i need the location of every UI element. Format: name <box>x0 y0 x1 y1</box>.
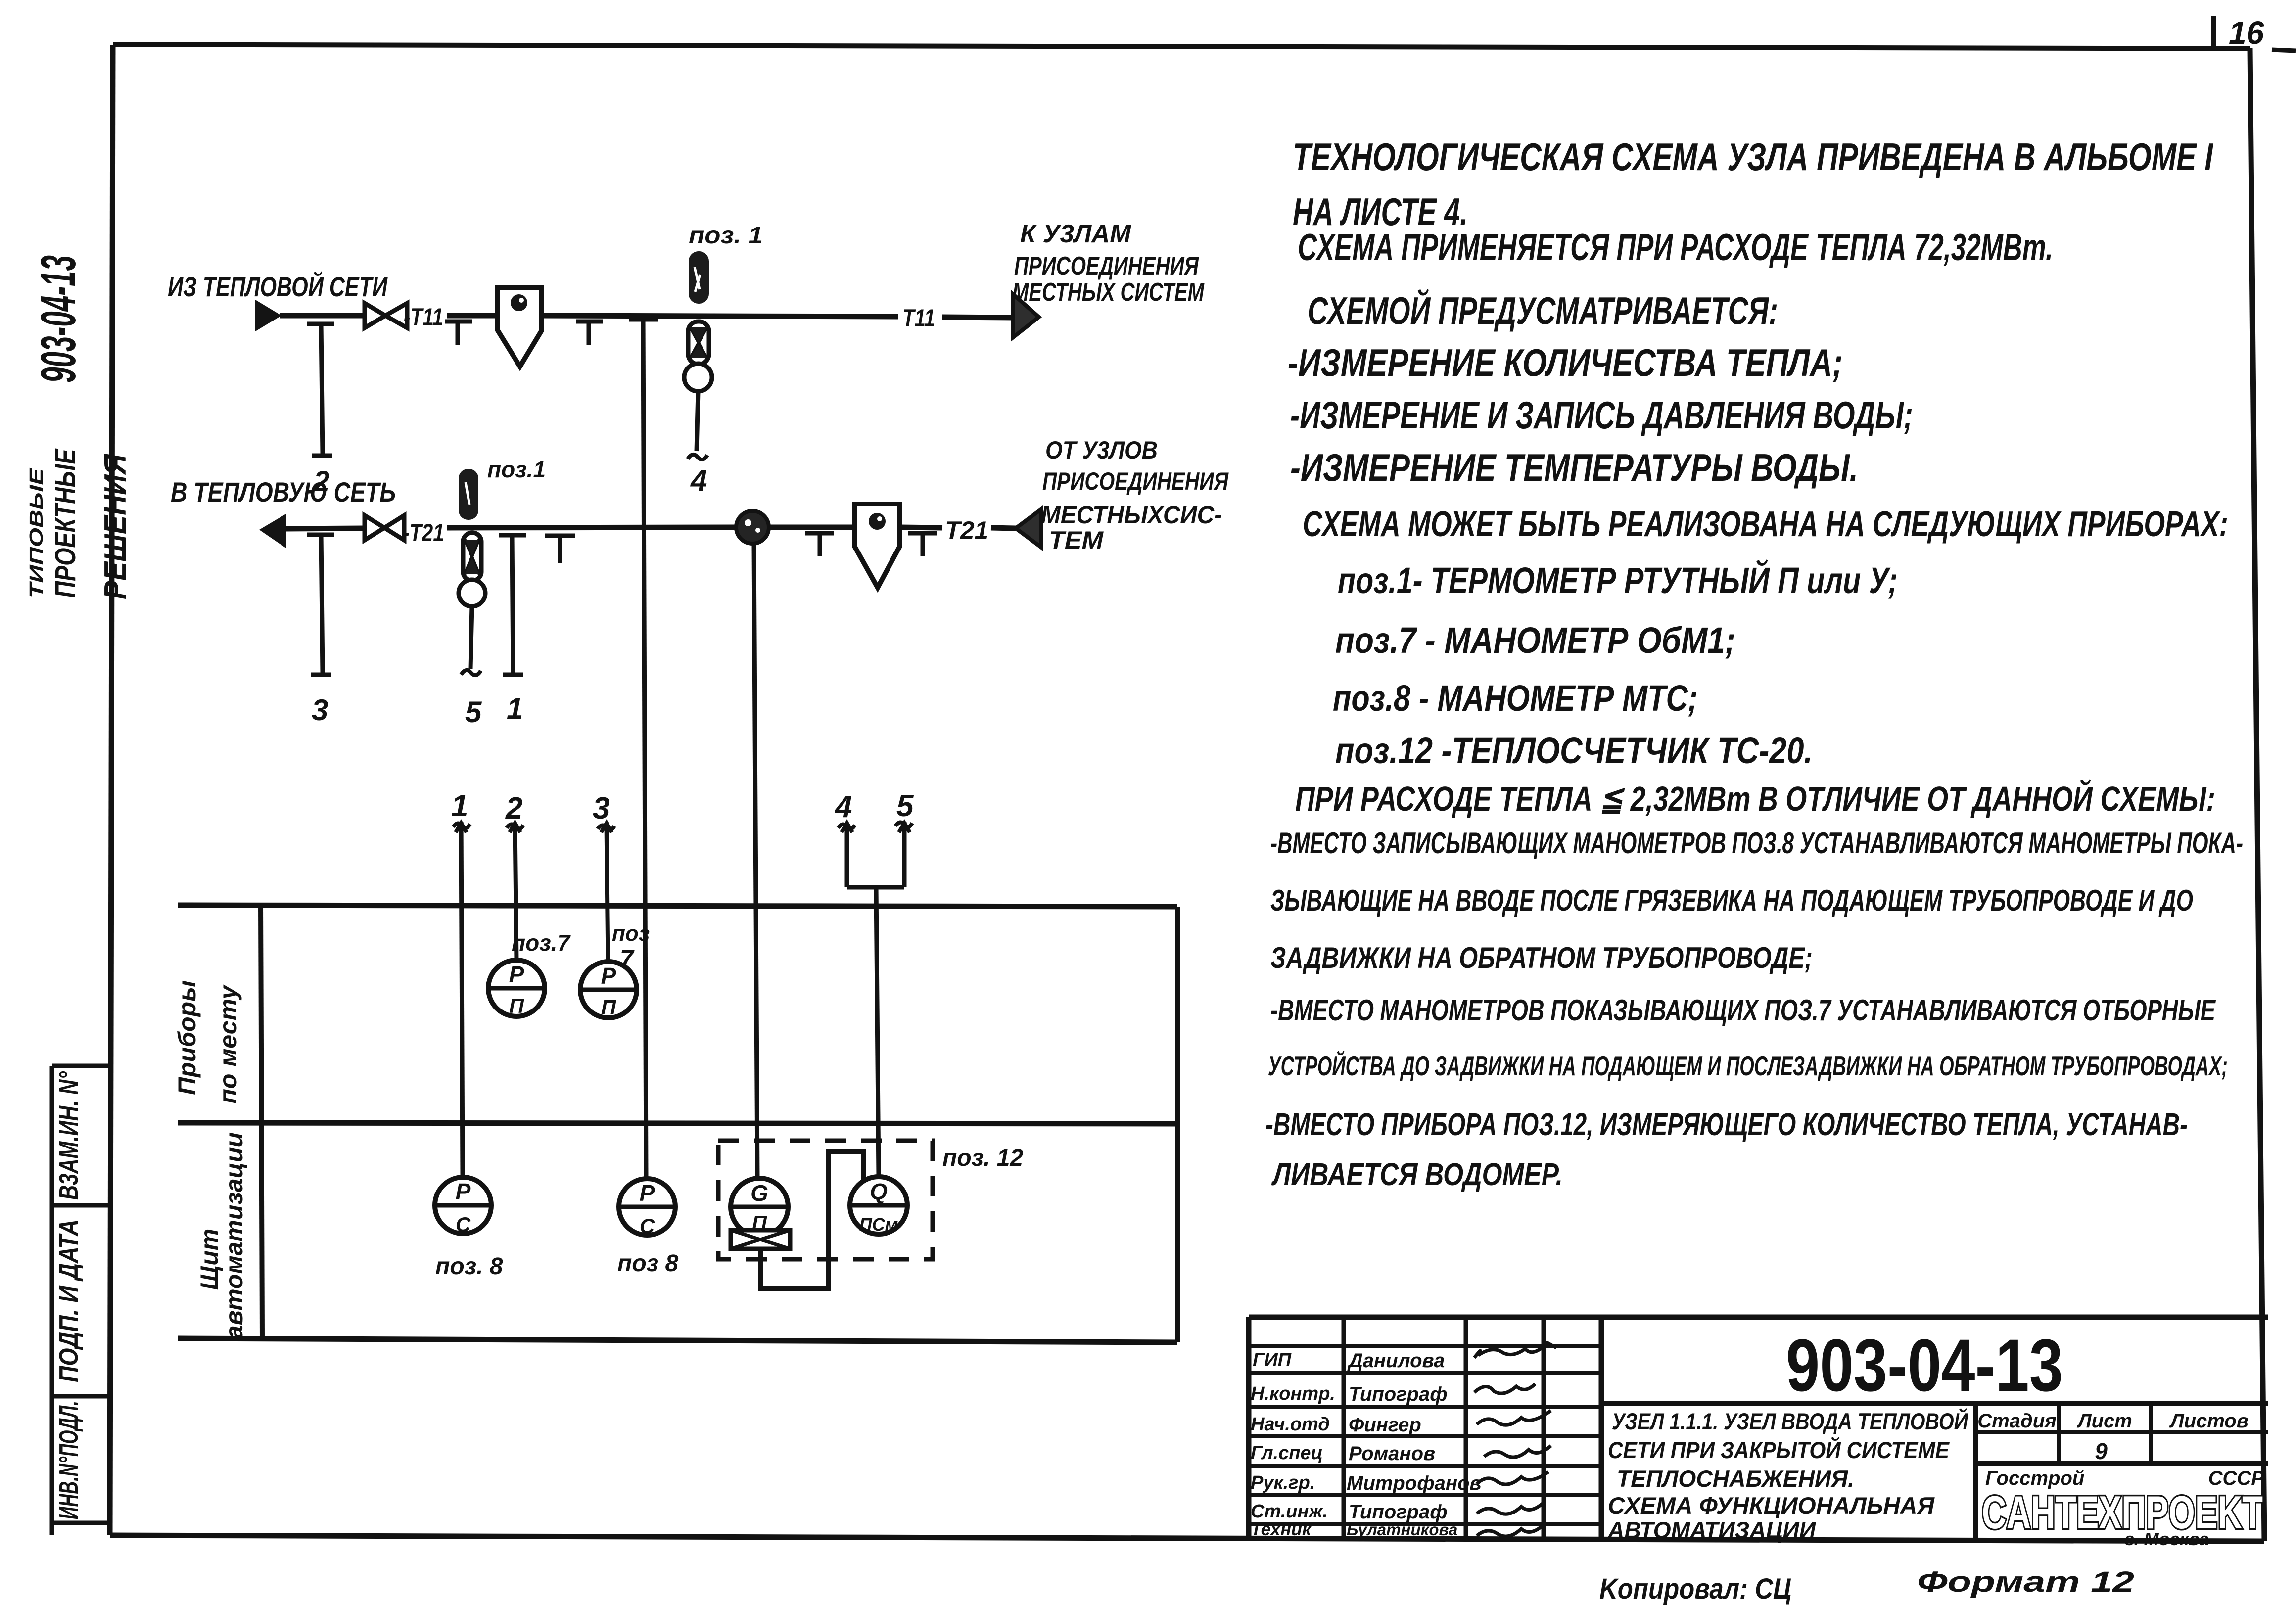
tap node 2 line <box>321 325 323 455</box>
title block vertical col2 <box>1464 1317 1468 1540</box>
pipe T21 outlet arrow <box>259 514 286 548</box>
svg-text:ГИП: ГИП <box>1253 1350 1292 1371</box>
connection path recorder to Q <box>761 1151 864 1289</box>
svg-text:Лист: Лист <box>2076 1410 2132 1432</box>
svg-text:ПCм: ПCм <box>859 1214 898 1235</box>
svg-text:-ИЗМЕРЕНИЕ И ЗАПИСЬ ДАВЛЕНИЯ: -ИЗМЕРЕНИЕ И ЗАПИСЬ ДАВЛЕНИЯ ВОДЫ; <box>1290 393 1913 437</box>
frame corner dash <box>2272 50 2296 51</box>
svg-text:-ВМЕСТО МАНОМЕТРОВ ПОКАЗЫВАЮЩ: -ВМЕСТО МАНОМЕТРОВ ПОКАЗЫВАЮЩИХ ПОЗ.7 УС… <box>1270 994 2216 1027</box>
svg-text:P: P <box>509 962 524 987</box>
svg-text:Типограф: Типограф <box>1349 1383 1448 1405</box>
svg-text:Нач.отд: Нач.отд <box>1251 1414 1330 1435</box>
T well mark on T21 left <box>545 536 575 563</box>
svg-text:ТИПОВЫЕ: ТИПОВЫЕ <box>26 467 47 598</box>
svg-text:Данилова: Данилова <box>1347 1350 1445 1372</box>
manometer pickup capsule on T11 <box>688 321 709 364</box>
svg-text:поз: поз <box>612 921 650 946</box>
manometer circle on T21 <box>459 580 485 606</box>
tap node 2 bottom bar <box>312 454 332 458</box>
tap node 2 top bar <box>307 322 334 326</box>
tap node 1 top bar <box>499 533 526 538</box>
svg-text:СХЕМА ПРИМЕНЯЕТСЯ ПРИ РАСХОДЕ: СХЕМА ПРИМЕНЯЕТСЯ ПРИ РАСХОДЕ ТЕПЛА 72,3… <box>1298 227 2053 269</box>
instrument circle pos.7 no.2 <box>580 962 637 1018</box>
panel table bottom boundary <box>178 1338 1177 1342</box>
dirt trap on T21 <box>854 504 900 588</box>
pipe T21 segment 5 <box>991 528 1016 528</box>
thermometer pos.1 on T11 <box>689 251 709 304</box>
stub 4-5 bracket <box>847 885 904 890</box>
svg-text:4: 4 <box>690 464 707 497</box>
panel table top boundary <box>178 905 1177 907</box>
T well mark on T21 mid <box>805 533 834 556</box>
instrument circle pos.8 no.1 <box>435 1177 491 1234</box>
svg-text:Техник: Техник <box>1251 1519 1312 1539</box>
stub line 4 <box>845 823 849 887</box>
stub 1 arrow tilde <box>453 823 470 828</box>
svg-text:3: 3 <box>312 693 328 727</box>
valve on T11 <box>365 303 407 328</box>
stub 3 arrowhead <box>601 823 612 832</box>
svg-text:МЕСТНЫХ СИСТЕМ: МЕСТНЫХ СИСТЕМ <box>1012 278 1205 307</box>
tap bar for line to panel pos.8 <box>629 318 658 322</box>
page number tick <box>2211 16 2216 49</box>
stub 2 arrow tilde <box>507 824 523 829</box>
svg-text:поз.8 - МАНОМЕТР МТС;: поз.8 - МАНОМЕТР МТС; <box>1333 678 1698 719</box>
svg-text:9: 9 <box>2095 1438 2108 1464</box>
stub 2 arrowhead <box>510 823 520 832</box>
pipe T11 segment 1 <box>280 313 366 319</box>
svg-text:-ВМЕСТО ПРИБОРА ПОЗ.12, ИЗМЕРЯ: -ВМЕСТО ПРИБОРА ПОЗ.12, ИЗМЕРЯЮЩЕГО КОЛИ… <box>1265 1106 2188 1142</box>
panel table left vertical <box>261 905 262 1339</box>
svg-text:ТЕХНОЛОГИЧЕСКАЯ СХЕМА УЗЛА: ТЕХНОЛОГИЧЕСКАЯ СХЕМА УЗЛА ПРИВЕДЕНА В А… <box>1293 135 2213 179</box>
svg-text:СЕТИ ПРИ ЗАКРЫТОЙ СИСТЕМЕ: СЕТИ ПРИ ЗАКРЫТОЙ СИСТЕМЕ <box>1608 1437 1950 1463</box>
drawing frame bottom border <box>110 1535 2264 1541</box>
svg-text:16: 16 <box>2229 15 2264 50</box>
tap node 3 top bar <box>307 533 334 537</box>
svg-text:Фингер: Фингер <box>1349 1414 1421 1436</box>
node 4 stem <box>697 391 698 451</box>
panel table middle boundary <box>178 1123 1177 1124</box>
svg-text:поз. 1: поз. 1 <box>689 223 763 249</box>
svg-text:P: P <box>640 1180 655 1206</box>
svg-text:Н.контр.: Н.контр. <box>1251 1383 1335 1404</box>
svg-text:4: 4 <box>834 790 852 824</box>
instrument circle flowmeter G <box>731 1178 788 1236</box>
stub 5 arrow tilde <box>895 822 912 827</box>
tap node 3 bottom bar <box>311 673 331 677</box>
svg-text:-T11: -T11 <box>404 303 443 331</box>
pipe T11 outlet arrow <box>1013 294 1039 337</box>
pipe T11 segment 3 <box>542 316 898 317</box>
stub line 2 <box>515 823 516 960</box>
pipe T21 segment 2 <box>447 527 736 528</box>
stub 1 arrowhead <box>456 823 467 832</box>
svg-text:поз. 12: поз. 12 <box>942 1145 1024 1171</box>
flow orifice on T21 <box>736 511 769 544</box>
title block vertical col4 <box>1599 1317 1604 1540</box>
stamp divider 1 <box>52 1203 113 1208</box>
stamp divider 3 <box>52 1521 110 1525</box>
svg-text:МЕСТНЫХСИС-: МЕСТНЫХСИС- <box>1041 501 1222 529</box>
drawing frame top border <box>113 45 2250 48</box>
svg-text:поз.7: поз.7 <box>512 930 571 956</box>
svg-text:УЗЕЛ 1.1.1. УЗЕЛ ВВОДА ТЕПЛОВО: УЗЕЛ 1.1.1. УЗЕЛ ВВОДА ТЕПЛОВОЙ <box>1612 1408 1968 1434</box>
tap node 3 line <box>321 536 323 674</box>
svg-text:Гл.спец: Гл.спец <box>1251 1443 1323 1464</box>
svg-text:-ИЗМЕРЕНИЕ КОЛИЧЕСТВА ТЕПЛА;: -ИЗМЕРЕНИЕ КОЛИЧЕСТВА ТЕПЛА; <box>1288 341 1843 384</box>
stub line 5 <box>902 822 907 887</box>
svg-text:ПРОЕКТНЫЕ: ПРОЕКТНЫЕ <box>49 448 82 598</box>
svg-text:ТЕПЛОСНАБЖЕНИЯ.: ТЕПЛОСНАБЖЕНИЯ. <box>1617 1466 1854 1492</box>
svg-text:Митрофанов: Митрофанов <box>1347 1472 1482 1494</box>
svg-text:C: C <box>640 1214 655 1238</box>
svg-text:ОТ У3ЛОВ: ОТ У3ЛОВ <box>1045 436 1158 464</box>
svg-text:-ВМЕСТО ЗАПИСЫВАЮЩИХ МАНОМЕТРО: -ВМЕСТО ЗАПИСЫВАЮЩИХ МАНОМЕТРОВ ПОЗ.8 УС… <box>1270 826 2243 860</box>
svg-text:поз.7 - МАНОМЕТР ОбМ1;: поз.7 - МАНОМЕТР ОбМ1; <box>1335 620 1735 661</box>
svg-text:CAHTEXПPOEKT: CAHTEXПPOEKT <box>1982 1486 2263 1538</box>
svg-text:П: П <box>601 996 616 1019</box>
tap node 1 line <box>512 536 513 674</box>
panel table right vertical <box>1175 907 1180 1342</box>
svg-text:В ТЕПЛОВУЮ СЕТЬ: В ТЕПЛОВУЮ СЕТЬ <box>171 476 396 507</box>
svg-text:АВТОМАТИЗАЦИИ: АВТОМАТИЗАЦИИ <box>1607 1517 1816 1543</box>
drawing frame right border <box>2250 48 2264 1541</box>
svg-text:Приборы: Приборы <box>173 980 201 1095</box>
long line from orifice to flowmeter G <box>754 544 757 1178</box>
svg-text:G: G <box>750 1180 768 1206</box>
tap node 1 bottom bar <box>503 673 523 677</box>
svg-text:Cтадия: Cтадия <box>1977 1410 2056 1432</box>
instrument circle heat meter Q <box>850 1177 907 1234</box>
dirt trap on T11 <box>498 287 542 367</box>
svg-text:Kопировал: CЦ: Kопировал: CЦ <box>1599 1573 1791 1605</box>
pipe T11 segment 2 <box>447 313 498 319</box>
stub 3 arrow tilde <box>598 825 614 830</box>
pipe T21 segment 3 <box>769 525 854 530</box>
svg-text:-T21: -T21 <box>403 519 444 547</box>
svg-text:поз.12 -ТЕПЛОСЧЕТЧИК ТС-20.: поз.12 -ТЕПЛОСЧЕТЧИК ТС-20. <box>1335 730 1813 771</box>
svg-text:5: 5 <box>896 789 914 823</box>
svg-text:7: 7 <box>620 945 635 972</box>
svg-text:ПРИСОЕДИНЕНИЯ: ПРИСОЕДИНЕНИЯ <box>1014 252 1199 280</box>
svg-text:Формат 12: Формат 12 <box>1917 1566 2134 1598</box>
thermometer pos.1 on T21 <box>459 469 478 520</box>
svg-text:1: 1 <box>451 789 468 823</box>
instrument circle pos.8 no.2 <box>619 1179 675 1235</box>
dirt trap 2 inner circle <box>869 513 886 530</box>
T well mark on T21 right <box>908 533 937 556</box>
drawing frame left border <box>110 45 113 1535</box>
stub line 1 <box>461 822 463 1175</box>
svg-text:по месту: по месту <box>214 984 242 1103</box>
stub 4 arrow tilde <box>838 824 855 829</box>
svg-text:P: P <box>601 963 616 989</box>
pipe T21 inlet arrow <box>1016 509 1041 547</box>
svg-text:ЗАДВИЖКИ НА ОБРАТНОМ ТРУБОПРОВ: ЗАДВИЖКИ НА ОБРАТНОМ ТРУБОПРОВОДЕ; <box>1270 941 1813 974</box>
stub line 3 <box>607 824 608 962</box>
svg-text:ИЗ ТЕПЛОВОЙ СЕТИ: ИЗ ТЕПЛОВОЙ СЕТИ <box>168 271 388 302</box>
svg-text:ПРИ РАСХОДЕ ТЕПЛА ≦ 2,32МВт: ПРИ РАСХОДЕ ТЕПЛА ≦ 2,32МВт В ОТЛИЧИЕ ОТ… <box>1295 779 2215 818</box>
valve on T21 <box>365 515 404 540</box>
node 5 stem <box>470 606 472 669</box>
title block vertical col1 <box>1342 1317 1346 1540</box>
svg-text:поз. 8: поз. 8 <box>435 1253 503 1280</box>
T well mark right of dirt trap <box>576 321 603 345</box>
svg-text:C: C <box>456 1213 471 1236</box>
svg-text:2: 2 <box>505 791 522 826</box>
svg-text:автоматизации: автоматизации <box>220 1132 248 1339</box>
svg-text:Щит: Щит <box>195 1229 223 1290</box>
title block vertical col3 <box>1542 1317 1546 1540</box>
svg-text:поз.1: поз.1 <box>487 457 546 482</box>
svg-text:Рук.гр.: Рук.гр. <box>1251 1472 1315 1493</box>
svg-text:поз 8: поз 8 <box>617 1250 678 1277</box>
svg-text:ТЕМ: ТЕМ <box>1049 526 1104 554</box>
svg-text:Романов: Романов <box>1349 1443 1435 1465</box>
svg-text:ПОДП. И ДАТА: ПОДП. И ДАТА <box>54 1219 84 1382</box>
svg-text:Булатникова: Булатникова <box>1347 1520 1457 1539</box>
stamp divider 2 <box>52 1394 113 1399</box>
svg-text:УСТРОЙСТВА ДО ЗАДВИЖКИ НА ПОДА: УСТРОЙСТВА ДО ЗАДВИЖКИ НА ПОДАЮЩЕМ И ПОС… <box>1268 1050 2228 1081</box>
svg-text:СХЕМОЙ ПРЕДУСМАТРИВАЕТСЯ:: СХЕМОЙ ПРЕДУСМАТРИВАЕТСЯ: <box>1308 289 1778 332</box>
svg-text:Q: Q <box>870 1179 888 1204</box>
svg-text:903-04-13: 903-04-13 <box>1786 1324 2063 1407</box>
svg-text:5: 5 <box>465 695 482 729</box>
node 4 tilde <box>688 455 707 459</box>
signature rows <box>1249 1344 1601 1348</box>
svg-text:СХЕМА МОЖЕТ БЫТЬ РЕАЛИЗОВАН: СХЕМА МОЖЕТ БЫТЬ РЕАЛИЗОВАНА НА СЛЕДУЮЩИ… <box>1303 505 2228 544</box>
stadiya list listov box <box>1973 1403 1978 1540</box>
svg-text:B3AM.ИH. N°: B3AM.ИH. N° <box>54 1071 84 1200</box>
svg-text:Типограф: Типограф <box>1349 1501 1448 1523</box>
divider under number <box>1601 1401 2268 1406</box>
long line T11 to panel pos.8 <box>643 318 646 1179</box>
svg-text:Листов: Листов <box>2169 1410 2249 1432</box>
pipe T21 segment 4 <box>900 527 942 528</box>
svg-text:г. Москва: г. Москва <box>2125 1529 2209 1549</box>
stub 5 arrowhead <box>899 823 910 832</box>
manometer pickup capsule on T21 <box>463 533 481 581</box>
svg-text:903-04-13: 903-04-13 <box>31 255 86 383</box>
stub 4 arrowhead <box>842 823 852 832</box>
svg-text:-ИЗМЕРЕНИЕ ТЕМПЕРАТУРЫ ВОДЫ.: -ИЗМЕРЕНИЕ ТЕМПЕРАТУРЫ ВОДЫ. <box>1290 446 1858 489</box>
svg-text:T21: T21 <box>945 516 988 544</box>
pipe T21 segment 1 <box>285 528 365 529</box>
svg-text:СХЕМА ФУНКЦИОНАЛЬНАЯ: СХЕМА ФУНКЦИОНАЛЬНАЯ <box>1608 1492 1935 1518</box>
title block left edge <box>1246 1317 1252 1540</box>
dirt trap 1 inner circle <box>511 294 527 311</box>
svg-text:РЕШЕНИЯ: РЕШЕНИЯ <box>98 453 133 599</box>
svg-text:ЛИВАЕТСЯ ВОДОМЕР.: ЛИВАЕТСЯ ВОДОМЕР. <box>1271 1156 1563 1192</box>
pipe T11 segment 4 <box>942 317 1013 318</box>
svg-text:P: P <box>456 1179 471 1204</box>
T well mark left of dirt trap <box>445 321 472 345</box>
drop line from bracket to Q meter <box>876 887 879 1177</box>
svg-text:К У3ЛАМ: К У3ЛАМ <box>1020 220 1132 248</box>
recorder box under G <box>731 1230 790 1249</box>
left stamp column box <box>50 1066 54 1535</box>
node 5 tilde <box>461 670 481 675</box>
pipe T11 inlet arrow <box>255 300 281 331</box>
svg-text:П: П <box>509 994 524 1017</box>
svg-text:1: 1 <box>507 692 523 725</box>
svg-text:поз.1- ТЕРМОМЕТР РТУТНЫЙ П и: поз.1- ТЕРМОМЕТР РТУТНЫЙ П или У; <box>1338 559 1898 601</box>
svg-text:T11: T11 <box>902 304 935 332</box>
instrument circle pos.7 no.1 <box>488 960 545 1016</box>
svg-text:ИHВ.N°ПОДЛ.: ИHВ.N°ПОДЛ. <box>54 1401 84 1519</box>
svg-text:ЗЫВАЮЩИЕ НА ВВОДЕ ПОСЛЕ ГРЯЗЕВ: ЗЫВАЮЩИЕ НА ВВОДЕ ПОСЛЕ ГРЯЗЕВИКА НА ПОД… <box>1270 884 2193 917</box>
title block outer top <box>1249 1315 2268 1320</box>
signatures <box>1474 1343 1556 1358</box>
svg-text:ПРИСОЕДИНЕНИЯ: ПРИСОЕДИНЕНИЯ <box>1042 467 1229 495</box>
dashed box poz.12 <box>718 1141 933 1259</box>
manometer circle on T11 <box>684 364 712 391</box>
